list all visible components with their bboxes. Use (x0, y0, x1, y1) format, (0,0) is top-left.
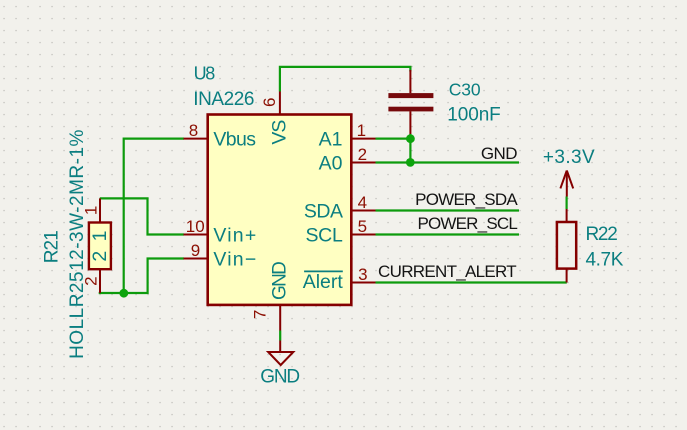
svg-text:SDA: SDA (304, 200, 343, 222)
pin 9 Vin- (184, 258, 208, 260)
svg-text:INA226: INA226 (193, 89, 254, 110)
junction at R21 bottom (119, 289, 128, 298)
svg-text:A1: A1 (319, 129, 343, 151)
wire A0 to GND label (376, 161, 520, 163)
wire R21 top to Vin+ (100, 198, 184, 234)
svg-text:2: 2 (358, 145, 367, 164)
wire SCL (376, 233, 520, 235)
wire pin7 to GND symbol (279, 331, 281, 341)
svg-text:SCL: SCL (305, 224, 342, 246)
junction A1/C30 (406, 134, 415, 143)
svg-text:3: 3 (358, 265, 367, 284)
pin 2 A0 (352, 162, 376, 164)
svg-text:7: 7 (250, 310, 269, 319)
svg-text:POWER_SDA: POWER_SDA (415, 190, 518, 209)
pin 8 Vbus (184, 138, 208, 140)
wire C30 bottom down to A0 net (409, 134, 411, 163)
capacitor C30 (388, 70, 433, 135)
wire CURRENT_ALERT (376, 281, 567, 283)
ground (260, 341, 299, 388)
resistor R21 (89, 198, 111, 293)
svg-text:GND: GND (481, 144, 517, 163)
wire R21 bottom to Vin- (99, 259, 184, 294)
svg-text:8: 8 (189, 121, 198, 140)
pin 6 VS (279, 92, 281, 115)
pin 3 Alert (352, 282, 376, 284)
svg-text:+3.3V: +3.3V (543, 147, 595, 168)
pin 1 A1 (352, 138, 376, 140)
svg-text:4: 4 (358, 193, 367, 212)
svg-text:2: 2 (89, 251, 111, 262)
svg-text:R22: R22 (586, 224, 618, 245)
svg-text:1: 1 (357, 121, 366, 140)
resistor R22 (557, 209, 576, 283)
pin 7 GND (279, 306, 281, 331)
power symbol +3.3V (543, 147, 595, 196)
svg-text:6: 6 (260, 98, 279, 107)
svg-text:POWER_SCL: POWER_SCL (417, 214, 517, 233)
svg-text:CURRENT_ALERT: CURRENT_ALERT (378, 262, 516, 281)
wire VS to C30 top (280, 67, 411, 92)
svg-text:GND: GND (269, 262, 290, 300)
pin name Alert with overline (303, 271, 344, 293)
pin 10 Vin+ (184, 234, 208, 236)
svg-text:Vbus: Vbus (213, 129, 256, 151)
wire +3.3V to R22 (565, 197, 567, 210)
svg-text:C30: C30 (449, 79, 481, 99)
junction A0/C30 (406, 158, 415, 167)
svg-text:Vin−: Vin− (213, 248, 257, 270)
svg-text:Vin+: Vin+ (213, 224, 257, 246)
svg-text:GND: GND (260, 367, 299, 388)
svg-text:10: 10 (186, 217, 205, 236)
svg-text:Alert: Alert (303, 271, 344, 293)
svg-text:VS: VS (268, 120, 290, 145)
IC U8 INA226 body (208, 115, 352, 305)
wire SDA (376, 209, 520, 211)
svg-text:100nF: 100nF (447, 105, 500, 126)
svg-text:HOLLR2512-3W-2MR-1%: HOLLR2512-3W-2MR-1% (67, 129, 88, 359)
wire Vbus left vertical run (124, 138, 184, 294)
svg-text:A0: A0 (319, 152, 343, 174)
pin 5 SCL (352, 234, 376, 236)
svg-text:R21: R21 (42, 231, 63, 263)
svg-text:9: 9 (191, 241, 200, 260)
svg-text:1: 1 (89, 231, 111, 242)
svg-text:4.7K: 4.7K (586, 250, 624, 271)
pin 4 SDA (352, 210, 376, 212)
svg-text:5: 5 (358, 217, 367, 236)
svg-text:U8: U8 (194, 64, 216, 84)
wire A1 to junction (376, 138, 411, 140)
